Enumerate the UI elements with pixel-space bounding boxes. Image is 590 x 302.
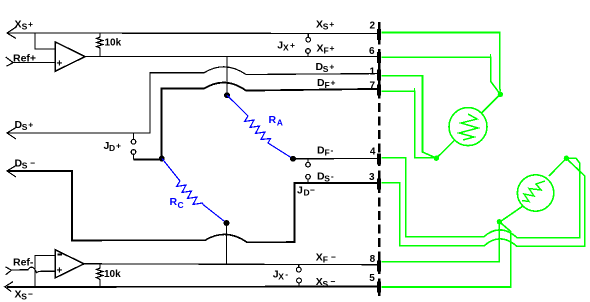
svg-text:1: 1 [369, 67, 375, 78]
svg-text:−: − [331, 276, 336, 286]
wire JD+ to node [134, 158, 163, 160]
pin tick 8 [377, 260, 381, 271]
svg-text:A: A [277, 118, 283, 128]
connector arrow XS+ [7, 27, 17, 39]
connector arrow Ref+ [6, 57, 14, 66]
svg-text:−: − [30, 158, 35, 168]
svg-text:+: + [290, 40, 295, 50]
green wire pin7 to sensor X bottom [381, 91, 436, 158]
junction node dot (DF-) [290, 156, 296, 162]
green wire pin2 to sensor X top [381, 33, 500, 92]
svg-text:D: D [109, 143, 115, 153]
green wire pin6 to sensor X top [381, 57, 500, 94]
label DS+ (left) [15, 119, 34, 132]
svg-text:+: + [57, 59, 63, 70]
green node dot sensor D bottom [497, 219, 502, 224]
svg-text:+: + [329, 19, 334, 29]
svg-text:J: J [297, 185, 303, 197]
RTD sensor D element zigzag [522, 181, 545, 202]
svg-text:5: 5 [369, 273, 375, 284]
green node dot sensor X bottom [434, 156, 439, 161]
svg-text:7: 7 [369, 81, 375, 92]
green node dot sensor D top [564, 156, 569, 161]
junction node dot (RC bottom) [224, 220, 230, 226]
wire U2 output XF- [84, 263, 377, 266]
svg-text:+: + [116, 141, 121, 151]
pin tick 1 [377, 69, 381, 80]
green wire sensor D bottom to pin5 [381, 222, 511, 287]
label JD+ [104, 140, 122, 153]
pin tick 5 [377, 282, 381, 293]
svg-text:R: R [170, 196, 178, 208]
svg-text:+: + [329, 62, 334, 72]
pin tick 4 [377, 154, 381, 165]
label DF+ (pin7) [317, 77, 336, 90]
svg-text:X: X [283, 43, 289, 53]
wire node to XF- line [226, 223, 228, 264]
svg-text:-: - [331, 171, 334, 181]
label JX+ [277, 40, 295, 53]
jumper JX+ terminal upper [306, 34, 311, 43]
svg-text:-: - [285, 269, 288, 279]
svg-text:−: − [310, 185, 315, 195]
jumper JD+ terminal upper [131, 133, 136, 144]
svg-text:8: 8 [370, 254, 376, 265]
svg-text:6: 6 [369, 46, 375, 57]
svg-text:X: X [15, 19, 22, 31]
resistor R2 10k [97, 265, 104, 288]
jumper JD+ terminal lower [131, 150, 136, 160]
jumper JX+ terminal lower [306, 49, 311, 57]
svg-text:X: X [317, 43, 324, 55]
label XS- (left) [15, 289, 34, 302]
label RC (blue) [170, 196, 184, 210]
green wire pin3 to sensor D top with hop [381, 159, 585, 247]
svg-text:+: + [57, 266, 63, 277]
label XS+ (left) [15, 19, 34, 32]
pin tick 6 [377, 52, 381, 63]
jumper JX- terminal lower [297, 278, 302, 286]
label XF- (pin8) [316, 252, 336, 265]
svg-text:F: F [323, 255, 328, 265]
svg-text:2: 2 [369, 21, 375, 32]
svg-text:S: S [22, 161, 28, 171]
wire DS- to pin 3 with cable hop [7, 171, 377, 242]
junction node dot (RC/DF+/JD+) [159, 156, 165, 162]
wire to op-amp U1 inverting input [35, 33, 55, 49]
svg-text:D: D [304, 188, 310, 198]
svg-text:S: S [323, 22, 329, 32]
RTD sensor X element zigzag [459, 114, 478, 140]
jumper JD- terminal lower [306, 174, 311, 183]
svg-text:−: − [28, 289, 33, 299]
resistor R1 10k [97, 34, 104, 57]
label DS- (pin3) [317, 170, 334, 183]
pin tick 7 [377, 84, 381, 95]
connector arrow XS- [5, 282, 13, 292]
svg-text:R: R [269, 114, 277, 126]
svg-text:F: F [325, 148, 330, 158]
jumper JX- terminal upper [296, 265, 301, 272]
green lead sensor X top [482, 95, 501, 114]
label XS+ (pin2) [316, 19, 334, 32]
svg-text:+: + [28, 19, 33, 29]
pin tick 2 [377, 29, 381, 40]
svg-text:S: S [323, 279, 329, 289]
svg-text:+: + [330, 43, 335, 53]
svg-text:+: + [331, 78, 336, 88]
green wire pin1 to sensor X bottom [381, 76, 436, 158]
wire XS+ top [7, 32, 377, 35]
label XS- (pin5) [316, 276, 336, 289]
svg-text:F: F [324, 46, 329, 56]
svg-text:10k: 10k [105, 38, 122, 49]
green tick pin7 corner [414, 88, 416, 91]
label RA (blue) [269, 114, 283, 128]
green lead sensor X bottom [436, 140, 454, 158]
svg-text:S: S [22, 122, 28, 132]
connector dashed line [378, 22, 381, 296]
resistor RA (blue) [227, 95, 293, 159]
connector arrow DS- [7, 165, 17, 177]
wire XS- tap to U2 inverting input [35, 255, 55, 287]
svg-text:+: + [28, 120, 33, 130]
green lead sensor D bottom [500, 206, 523, 222]
svg-text:S: S [324, 174, 330, 184]
resistor RC (blue) [162, 159, 227, 224]
green lead sensor D top [549, 158, 566, 176]
op-amp U1 [55, 42, 85, 72]
svg-text:4: 4 [370, 147, 376, 158]
wire DF+ from node to pin 7 with cable hop [162, 83, 378, 159]
RTD sensor D (circle) [517, 175, 553, 211]
label DS- (left) [15, 158, 36, 171]
label DS+ (pin1) [316, 61, 335, 74]
green wire sensor D bottom to pin8 [381, 222, 499, 262]
label JD- [297, 185, 315, 198]
wire XS- to pin 5 [7, 286, 377, 289]
RTD sensor X (circle) [449, 108, 487, 146]
svg-text:C: C [178, 200, 184, 210]
wire U1 output XF+ [85, 56, 377, 58]
svg-text:-: - [331, 145, 334, 155]
svg-text:−: − [331, 252, 336, 262]
connector arrow DS+ [7, 127, 17, 139]
green wire pin4 to sensor D top with hop [381, 158, 579, 238]
wire XF+ tap down to node RA [226, 57, 228, 96]
green node dot sensor X top [498, 92, 503, 97]
green tick pin6 corner [490, 54, 492, 57]
svg-text:S: S [323, 64, 329, 74]
svg-text:X: X [316, 252, 323, 264]
label XF+ (pin6) [317, 43, 335, 56]
svg-text:S: S [22, 22, 28, 32]
junction node dot (XF+/RA) [224, 92, 230, 98]
jumper JD- terminal upper [306, 159, 311, 167]
svg-text:S: S [21, 292, 27, 302]
op-amp U2 [55, 250, 84, 278]
pin tick 3 [377, 178, 381, 189]
svg-text:3: 3 [369, 172, 375, 183]
label JX- [273, 269, 289, 282]
wire Ref- to U2 non-inverting input with hop [12, 267, 56, 272]
wire DS+ to pin 1 with cable hop [7, 67, 377, 133]
svg-text:10k: 10k [104, 269, 121, 280]
connector arrow Ref- [5, 267, 11, 275]
svg-text:F: F [325, 80, 330, 90]
label DF- (pin4) [317, 145, 334, 158]
wire DF- from node to pin 4 [293, 158, 377, 160]
wire Ref+ to U1 non-inverting input [13, 62, 55, 64]
svg-text:X: X [278, 272, 284, 282]
